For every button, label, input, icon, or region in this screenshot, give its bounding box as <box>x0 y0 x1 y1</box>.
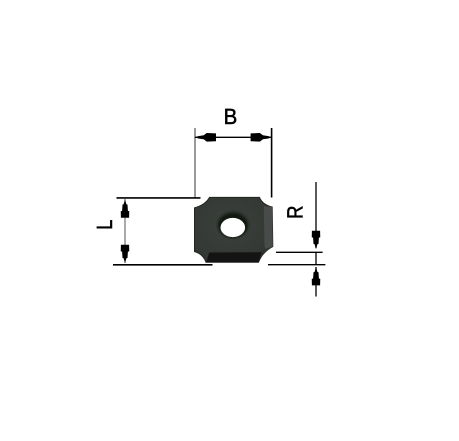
svg-text:R: R <box>283 206 308 219</box>
svg-text:L: L <box>92 220 117 230</box>
svg-text:B: B <box>224 104 238 129</box>
